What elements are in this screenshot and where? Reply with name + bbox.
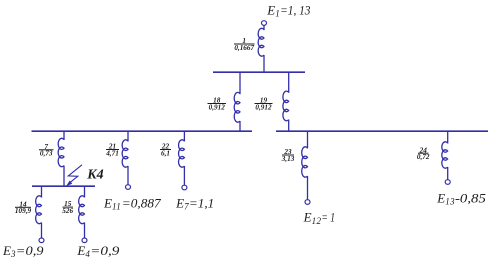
label fraction 15/526 bbox=[63, 206, 74, 208]
wire top bus to reactor 18 bbox=[239, 72, 241, 94]
top bus bbox=[213, 71, 305, 73]
reactor 18 (coil) bbox=[234, 92, 240, 122]
wire left bus to reactor 7 bbox=[63, 131, 65, 140]
reactor 24 (coil) bbox=[442, 142, 448, 168]
wire reactor 15 to terminal E4 bbox=[84, 223, 86, 239]
wire reactor 22 to terminal E7 bbox=[183, 166, 185, 185]
svg-text:0,73: 0,73 bbox=[40, 150, 53, 158]
label fraction 23/3,13 bbox=[282, 154, 294, 156]
label fraction 14/109,9 bbox=[15, 206, 31, 208]
terminal E11 bbox=[126, 185, 131, 190]
svg-text:4,71: 4,71 bbox=[105, 149, 119, 157]
svg-text:0,72: 0,72 bbox=[417, 153, 430, 161]
svg-text:E: E bbox=[175, 195, 184, 210]
svg-text:-0,85: -0,85 bbox=[455, 190, 486, 205]
wire reactor 24 to terminal E13 bbox=[447, 167, 449, 180]
reactor 23 (coil) bbox=[302, 147, 308, 177]
svg-text:=1,1: =1,1 bbox=[189, 195, 214, 210]
svg-text:=0,9: =0,9 bbox=[90, 243, 120, 258]
svg-text:= 1: = 1 bbox=[321, 210, 335, 225]
label fraction 1/0,1667 bbox=[234, 43, 255, 45]
wire reactor 23 to terminal E12 bbox=[307, 176, 309, 200]
svg-text:E: E bbox=[103, 195, 112, 210]
svg-text:109,9: 109,9 bbox=[15, 207, 32, 215]
label fraction 7/0,73 bbox=[39, 149, 54, 151]
wire top bus to reactor 19 bbox=[288, 72, 290, 93]
wire reactor 7 to lower bus bbox=[63, 166, 65, 187]
svg-text:0,912: 0,912 bbox=[209, 103, 226, 111]
wire left bus to reactor 22 bbox=[183, 131, 185, 142]
left bus bbox=[32, 130, 253, 132]
svg-text:0,1667: 0,1667 bbox=[234, 44, 254, 52]
svg-text:E: E bbox=[266, 2, 275, 17]
terminal E4 bbox=[82, 238, 87, 243]
wire reactor 19 to right bus bbox=[288, 120, 290, 131]
svg-text:0,912: 0,912 bbox=[255, 103, 272, 111]
right bus bbox=[276, 130, 488, 132]
svg-text:526: 526 bbox=[62, 207, 73, 215]
wire right bus to reactor 23 bbox=[307, 131, 309, 149]
lower bus bbox=[32, 185, 95, 187]
terminal E3 bbox=[39, 238, 44, 243]
label fraction 22/6,1 bbox=[160, 149, 171, 151]
svg-text:12: 12 bbox=[312, 216, 322, 226]
svg-text:=1, 13: =1, 13 bbox=[280, 2, 311, 17]
label fraction 24/0,72 bbox=[418, 152, 429, 154]
source terminal E1 bbox=[262, 21, 267, 26]
label fraction 18/0,912 bbox=[208, 103, 227, 105]
svg-text:3,13: 3,13 bbox=[281, 155, 295, 163]
reactor 7 (coil) bbox=[58, 138, 64, 166]
svg-text:E: E bbox=[2, 243, 11, 258]
fault lightning arrow K4 bbox=[68, 165, 82, 182]
svg-text:K4: K4 bbox=[86, 168, 103, 183]
svg-text:13: 13 bbox=[445, 197, 455, 207]
svg-text:=0,9: =0,9 bbox=[16, 243, 44, 258]
svg-text:6,1: 6,1 bbox=[161, 149, 170, 157]
terminal E12 bbox=[305, 200, 310, 205]
wire right bus to reactor 24 bbox=[447, 131, 449, 144]
svg-text:E: E bbox=[76, 243, 85, 258]
svg-text:E: E bbox=[303, 210, 312, 225]
svg-text:E: E bbox=[436, 190, 445, 205]
wire reactor 1 to top bus bbox=[263, 55, 265, 72]
wire reactor 21 to terminal E11 bbox=[127, 166, 129, 185]
label fraction 19/0,912 bbox=[255, 103, 273, 105]
terminal E13 bbox=[445, 180, 450, 185]
svg-text:11: 11 bbox=[112, 202, 121, 212]
reactor 22 (coil) bbox=[179, 140, 185, 167]
wire lower bus to reactor 14 bbox=[41, 186, 43, 198]
wire reactor 18 to left bus bbox=[239, 121, 241, 131]
reactor 15 (coil) bbox=[79, 196, 85, 224]
wire lower bus to reactor 15 bbox=[84, 186, 86, 198]
reactor 19 (coil) bbox=[283, 91, 289, 121]
terminal E7 bbox=[182, 185, 187, 190]
label fraction 21/4,71 bbox=[106, 149, 119, 151]
wire left bus to reactor 21 bbox=[127, 131, 129, 142]
wire from terminal E1 to reactor 1 bbox=[263, 25, 265, 30]
wire reactor 14 to terminal E3 bbox=[41, 223, 43, 239]
reactor 14 (coil) bbox=[36, 196, 42, 224]
svg-text:=0,887: =0,887 bbox=[122, 195, 161, 210]
reactor 1 (coil) bbox=[258, 28, 264, 56]
reactor 21 (coil) bbox=[122, 140, 128, 167]
